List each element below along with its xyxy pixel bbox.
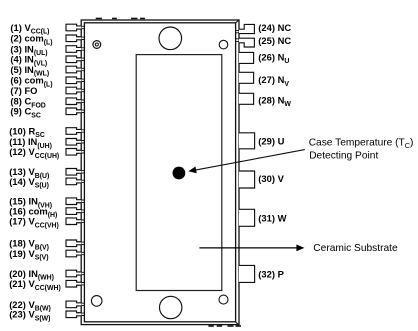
left pin 4 lead <box>66 56 81 63</box>
right pin 25 lead <box>239 38 255 47</box>
left pin 23 lead <box>66 311 81 318</box>
svg-text:(24) NC: (24) NC <box>258 22 291 33</box>
left pin 11 lead <box>66 139 81 146</box>
left pin 13 lead <box>66 169 81 176</box>
right pin 32 lead <box>239 265 255 282</box>
svg-text:Ceramic Substrate: Ceramic Substrate <box>313 243 398 254</box>
stray crop marks above top edge <box>96 18 102 20</box>
left pin 18 lead <box>66 240 81 247</box>
svg-text:(29) U: (29) U <box>258 135 284 146</box>
svg-text:(31) W: (31) W <box>258 213 286 224</box>
left pin 15 lead <box>66 198 81 205</box>
left pin 1 lead <box>66 24 81 31</box>
svg-text:Detecting Point: Detecting Point <box>309 151 378 162</box>
left pin 10 lead <box>66 128 81 135</box>
left pin 22 lead <box>66 301 81 308</box>
left pin 12 lead <box>66 149 81 156</box>
svg-text:(30) V: (30) V <box>258 173 284 184</box>
left pin 14 lead <box>66 178 81 185</box>
package outer outline <box>81 20 239 325</box>
left pin 8 lead <box>66 98 81 105</box>
ceramic substrate outline <box>136 55 222 291</box>
hole bottom-left <box>91 296 102 307</box>
right pin 26 lead <box>239 52 254 63</box>
left pin 16 lead <box>66 208 81 215</box>
left pin 2 lead <box>66 35 81 42</box>
right pin 31 lead <box>239 209 255 226</box>
hole bottom-right <box>219 295 228 304</box>
bottom-right corner bevel <box>236 322 240 325</box>
svg-text:(25) NC: (25) NC <box>258 35 291 46</box>
left pin 6 lead <box>66 77 81 84</box>
left pin 3 lead <box>66 46 81 53</box>
svg-text:(27) NV: (27) NV <box>258 74 289 88</box>
Tc arrow (leader line + head) <box>188 150 304 174</box>
svg-text:(32) P: (32) P <box>258 268 284 279</box>
svg-text:(28) NW: (28) NW <box>258 95 291 109</box>
left pin 5 lead <box>66 66 81 73</box>
svg-text:(26) NU: (26) NU <box>258 52 289 66</box>
left pin 9 lead <box>66 108 81 115</box>
right pin 28 lead <box>239 93 254 104</box>
left pin 17 lead <box>66 218 81 225</box>
left pin 21 lead <box>66 280 81 287</box>
package inner (case rim) outline <box>84 23 235 322</box>
mounting hole bottom-center <box>160 296 182 318</box>
mounting hole top-center <box>159 27 182 50</box>
ceramic substrate leader line + arrow head <box>199 245 304 252</box>
right pin 27 lead <box>239 72 254 83</box>
hole top-right <box>219 40 228 49</box>
pin-1 index double circle top-left <box>93 41 101 49</box>
right pin 30 lead <box>239 171 255 188</box>
right pin 29 lead <box>239 133 255 149</box>
svg-text:(7) FO: (7) FO <box>10 85 37 96</box>
svg-text:Case Temperature (TC): Case Temperature (TC) <box>309 137 414 150</box>
stray crop marks below bottom edge <box>208 325 213 327</box>
left pin 20 lead <box>66 270 81 277</box>
left pin 19 lead <box>66 250 81 257</box>
left pin 7 lead <box>66 87 81 94</box>
Tc detecting point dot <box>173 167 186 180</box>
right pin 24 lead <box>239 24 255 33</box>
top-right corner bevel <box>236 20 239 23</box>
